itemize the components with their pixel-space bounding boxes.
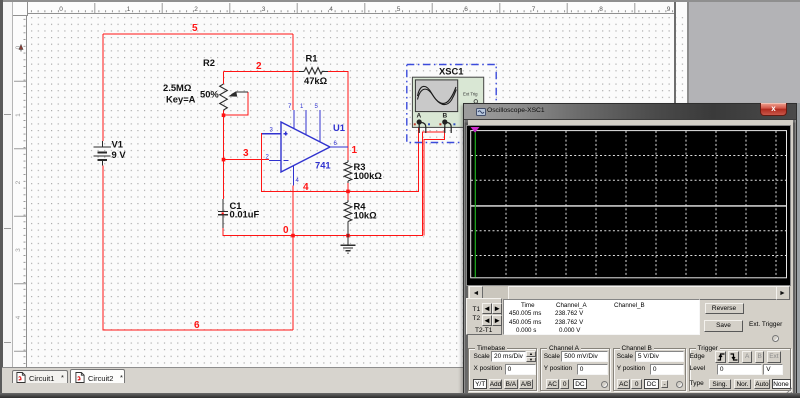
- svg-text:5: 5: [397, 6, 401, 13]
- svg-text:0: 0: [283, 225, 289, 236]
- svg-text:R2: R2: [203, 57, 215, 68]
- svg-text:1: 1: [352, 145, 358, 156]
- svg-text:2.5MΩ: 2.5MΩ: [163, 82, 192, 93]
- svg-text:8: 8: [599, 6, 603, 13]
- junction net 4 / R3R4: [346, 190, 350, 194]
- junction net 3: [222, 158, 226, 162]
- svg-text:0.01uF: 0.01uF: [230, 209, 260, 220]
- node 0 label: [283, 225, 289, 236]
- wire battery top: [102, 34, 104, 141]
- wire net 2: [224, 70, 300, 72]
- svg-text:47kΩ: 47kΩ: [304, 75, 328, 86]
- cursor icon: [19, 45, 23, 52]
- wire R1 right to output: [328, 71, 349, 160]
- junction pot wiper: [222, 113, 226, 117]
- svg-text:741: 741: [315, 160, 331, 171]
- svg-text:Key=A: Key=A: [166, 94, 196, 105]
- svg-text:2: 2: [194, 6, 198, 13]
- wire pot top lead: [223, 71, 225, 84]
- svg-text:10kΩ: 10kΩ: [354, 210, 378, 221]
- wire pot wiper loop: [224, 92, 249, 115]
- svg-text:100kΩ: 100kΩ: [354, 170, 383, 181]
- svg-text:R1: R1: [306, 53, 318, 64]
- node 3 label: [243, 148, 249, 159]
- wire net 5 to pin7: [292, 34, 294, 110]
- potentiometer R2: [220, 84, 248, 110]
- R2 labels: [163, 57, 219, 105]
- C1 labels: [230, 200, 260, 220]
- dark bottom band: [0, 393, 800, 398]
- node 5 label: [192, 23, 198, 34]
- svg-text:50%: 50%: [200, 89, 219, 100]
- svg-text:4: 4: [303, 182, 309, 193]
- resistor R1: [299, 68, 328, 74]
- svg-text:4: 4: [329, 6, 333, 13]
- R4 labels: [354, 201, 378, 221]
- capacitor C1: [218, 199, 228, 228]
- svg-text:0: 0: [59, 6, 63, 13]
- XSC1 wire B: [424, 133, 444, 236]
- svg-text:A: A: [417, 113, 422, 120]
- svg-text:6: 6: [194, 320, 200, 331]
- ruler corner: [13, 2, 28, 16]
- svg-text:9: 9: [667, 6, 671, 13]
- svg-text:V1: V1: [112, 139, 123, 150]
- R3 labels: [354, 161, 383, 181]
- svg-text:3: 3: [15, 248, 22, 252]
- wire net 3: [224, 159, 270, 161]
- left ruler: [13, 16, 27, 368]
- wire pot bottom to C1: [223, 110, 225, 199]
- top ruler: [28, 2, 674, 14]
- R1 labels: [304, 53, 328, 87]
- U1 pin numbers: [266, 104, 338, 184]
- wire net 0: [223, 124, 445, 236]
- svg-text:2: 2: [256, 61, 262, 72]
- wire V- supply vertical: [292, 186, 294, 331]
- XSC1 Ext Trig text: [463, 91, 478, 103]
- svg-text:3: 3: [243, 148, 249, 159]
- sheet frame strip: [3, 2, 13, 393]
- svg-text:XSC1: XSC1: [439, 66, 464, 77]
- battery V1: [94, 141, 112, 166]
- svg-text:1: 1: [127, 6, 131, 13]
- svg-text:3: 3: [262, 6, 266, 13]
- resistor R4: [344, 200, 352, 222]
- junction net 0 / ground: [346, 234, 350, 238]
- U1 labels: [315, 122, 345, 171]
- XSC1 wire A: [418, 133, 420, 191]
- node 6 label: [194, 320, 200, 331]
- node 4 label: [303, 182, 309, 193]
- svg-text:9 V: 9 V: [112, 149, 127, 160]
- XSC1 label: [439, 66, 464, 77]
- oscilloscope instrument XSC1: [412, 77, 483, 127]
- svg-text:2: 2: [15, 180, 22, 184]
- XSC1 terminals: [414, 113, 456, 134]
- left ruler ticks: [14, 19, 26, 363]
- grid dots canvas: [28, 16, 674, 368]
- svg-text:Ext Trig: Ext Trig: [463, 91, 478, 96]
- ground: [341, 222, 356, 254]
- wire net 4: [262, 124, 419, 191]
- op-amp U1: [262, 110, 348, 186]
- battery V1 labels: [112, 139, 127, 161]
- svg-text:1: 1: [15, 113, 22, 117]
- svg-text:4: 4: [15, 315, 22, 319]
- node 1 label: [352, 145, 358, 156]
- junction net 0 / V-: [291, 234, 295, 238]
- svg-text:5: 5: [192, 23, 198, 34]
- wire R3 bottom to R4 top: [347, 183, 349, 200]
- top ruler ticks: [31, 3, 672, 13]
- wire battery bottom net 6: [103, 166, 293, 331]
- top window edge: [0, 0, 800, 2]
- resistor R3: [344, 160, 352, 183]
- left dark edge: [0, 0, 3, 398]
- svg-text:B: B: [443, 113, 448, 120]
- svg-text:6: 6: [464, 6, 468, 13]
- XSC1 selection marquee: [407, 65, 496, 143]
- node 2 label: [256, 61, 262, 72]
- svg-text:U1: U1: [333, 122, 345, 133]
- wire net 5 top: [103, 33, 293, 35]
- svg-text:7: 7: [532, 6, 536, 13]
